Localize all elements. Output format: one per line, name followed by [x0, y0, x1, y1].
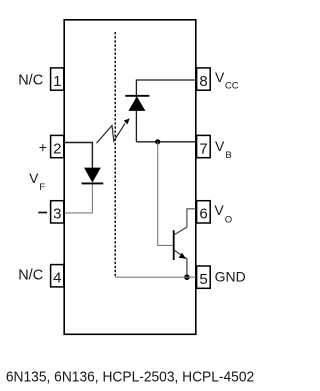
- svg-text:GND: GND: [215, 268, 246, 284]
- svg-text:4: 4: [53, 270, 61, 287]
- svg-text:7: 7: [199, 140, 207, 157]
- svg-text:CC: CC: [225, 81, 239, 92]
- svg-text:V: V: [215, 69, 225, 85]
- svg-text:V: V: [215, 138, 225, 154]
- svg-text:6N135, 6N136, HCPL-2503, HCPL-: 6N135, 6N136, HCPL-2503, HCPL-4502: [6, 369, 254, 386]
- svg-text:F: F: [39, 182, 45, 193]
- svg-text:2: 2: [53, 140, 61, 157]
- svg-text:O: O: [225, 214, 232, 225]
- svg-text:6: 6: [199, 206, 207, 223]
- svg-text:+: +: [39, 139, 47, 155]
- svg-text:V: V: [29, 170, 39, 186]
- svg-text:V: V: [214, 202, 224, 218]
- svg-text:B: B: [225, 150, 231, 161]
- svg-text:8: 8: [199, 73, 207, 90]
- svg-text:1: 1: [53, 73, 61, 90]
- svg-text:N/C: N/C: [18, 268, 43, 284]
- svg-text:5: 5: [199, 271, 207, 288]
- svg-text:3: 3: [53, 206, 61, 223]
- svg-text:N/C: N/C: [18, 72, 43, 88]
